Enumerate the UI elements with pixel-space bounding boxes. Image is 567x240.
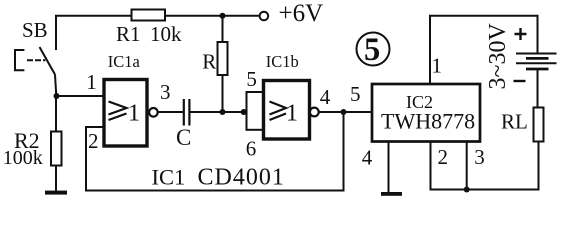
svg-text:C: C <box>176 125 191 150</box>
svg-text:TWH8778: TWH8778 <box>381 109 475 134</box>
pin label 6 (IC1b) <box>246 137 256 161</box>
label IC1a <box>108 52 141 71</box>
svg-text:4: 4 <box>320 85 331 109</box>
resistor R <box>218 42 228 75</box>
battery + sign <box>515 28 527 40</box>
label TWH8778 <box>381 109 475 134</box>
label C <box>176 125 191 150</box>
svg-text:6: 6 <box>246 137 256 161</box>
label IC1b <box>266 52 299 71</box>
svg-text:5: 5 <box>246 67 257 91</box>
pin label 4 (IC1b) <box>320 85 331 109</box>
junction dot bottom rail <box>464 187 470 193</box>
wire blade hinge to node <box>55 75 56 97</box>
label +6V <box>279 0 324 27</box>
svg-text:R: R <box>202 50 216 74</box>
svg-text:1: 1 <box>286 101 298 127</box>
svg-text:IC1a: IC1a <box>108 52 141 71</box>
svg-text:RL: RL <box>501 110 528 134</box>
svg-text:1: 1 <box>432 54 443 78</box>
wire IC2 pin 4 to ground <box>388 143 390 193</box>
ground (R2) <box>45 191 67 195</box>
power terminal +6V <box>260 12 269 21</box>
wire IC2 pin 3 drop <box>466 143 468 190</box>
junction node at R top <box>220 13 226 19</box>
wire node to R2 <box>55 96 57 132</box>
resistor RL <box>534 108 544 142</box>
≥1 symbol IC1b <box>270 102 287 121</box>
pin label 3 <box>160 80 171 104</box>
output bubble IC1a pin 3 <box>149 108 158 117</box>
ground (IC2 pin 4) <box>381 192 402 196</box>
wire IC2 pin 1 to battery + <box>430 16 538 84</box>
svg-text:1: 1 <box>86 70 97 94</box>
gate IC1a body <box>104 80 147 147</box>
junction dot (R bottom) <box>220 109 226 115</box>
label 3~30V <box>485 23 511 90</box>
wire battery to RL <box>537 69 539 108</box>
junction dot (feedback tap) <box>341 109 347 115</box>
switch SB actuator dashed link <box>27 59 45 61</box>
svg-text:5: 5 <box>364 32 380 68</box>
svg-text:+6V: +6V <box>279 0 324 27</box>
svg-text:5: 5 <box>350 82 361 106</box>
battery plates <box>516 53 557 55</box>
gate IC1b body <box>264 81 310 140</box>
pin label 3 (IC2) <box>474 145 485 169</box>
label SB <box>22 18 48 42</box>
svg-text:1: 1 <box>128 101 140 127</box>
switch SB blade <box>40 47 56 75</box>
figure number badge 5 <box>357 33 390 66</box>
wire bubble to capacitor <box>159 111 184 113</box>
switch SB actuator bracket <box>15 50 24 70</box>
svg-text:100k: 100k <box>3 147 43 169</box>
feedback wire to IC1a pin 2 <box>86 112 344 191</box>
wire capacitor to IC1b input <box>189 111 246 113</box>
≥1 symbol IC1a <box>109 102 127 121</box>
svg-text:4: 4 <box>362 145 373 169</box>
wire top rail from switch to +6V terminal <box>56 16 259 50</box>
wire IC1b output to IC2 pin 5 <box>319 111 371 113</box>
pin label 1 (IC2) <box>432 54 443 78</box>
svg-text:2: 2 <box>88 129 99 153</box>
input bracket IC1b (pins 5,6 tied) <box>247 92 266 130</box>
label R <box>202 50 216 74</box>
svg-text:2: 2 <box>438 145 449 169</box>
svg-text:IC1: IC1 <box>152 164 186 189</box>
wire R2 to ground <box>55 166 57 192</box>
label R2 100k <box>3 128 43 169</box>
svg-text:R1: R1 <box>116 22 141 46</box>
label R1 10k <box>116 22 182 46</box>
pin label 2 (IC1a) <box>88 129 99 153</box>
pin label 1 (IC1a) <box>86 70 97 94</box>
pin label 5 (IC2) <box>350 82 361 106</box>
svg-text:IC1b: IC1b <box>266 52 299 71</box>
pin label 2 (IC2) <box>438 145 449 169</box>
wire node to IC1a pin 1 <box>56 95 104 97</box>
battery - sign <box>514 80 526 82</box>
node junction dot <box>54 93 60 99</box>
label IC1 CD4001 <box>152 164 285 190</box>
capacitor C <box>183 99 185 126</box>
label RL <box>501 110 528 134</box>
junction dot at bracket <box>241 109 247 115</box>
svg-text:SB: SB <box>22 18 48 42</box>
svg-text:CD4001: CD4001 <box>198 164 285 190</box>
wire RL bottom rail to IC2 pin 2 <box>431 142 539 190</box>
wire R column <box>222 16 224 112</box>
resistor R1 <box>132 10 166 21</box>
pin label 5 (IC1b) <box>246 67 257 91</box>
svg-text:3: 3 <box>474 145 485 169</box>
pin label 4 (IC2) <box>362 145 373 169</box>
svg-text:3: 3 <box>160 80 171 104</box>
output bubble IC1b pin 4 <box>310 108 319 117</box>
resistor R2 <box>51 132 62 166</box>
svg-text:10k: 10k <box>150 22 182 46</box>
IC2 TWH8778 box <box>372 84 480 142</box>
label IC2 <box>406 92 433 112</box>
svg-text:3~30V: 3~30V <box>485 23 511 90</box>
